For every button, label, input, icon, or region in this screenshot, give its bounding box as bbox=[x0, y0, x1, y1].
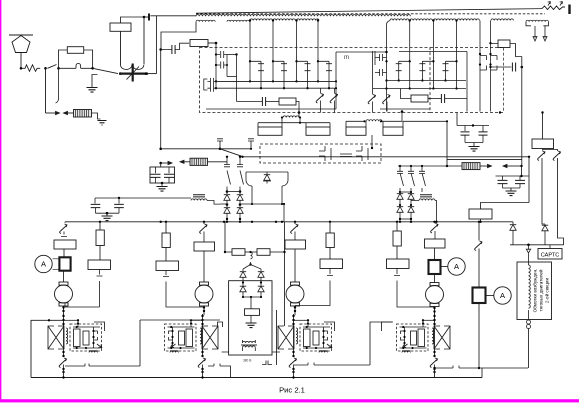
relay B1 box bbox=[346, 127, 366, 135]
VIP2 control column bbox=[387, 21, 391, 26]
right cap 2 bbox=[519, 176, 521, 180]
bridge B contact 2 bbox=[411, 166, 415, 192]
VIP2 output slashes bbox=[368, 95, 375, 105]
aux resistor Ra2 bbox=[245, 251, 257, 253]
node rectifier rail top bbox=[215, 42, 218, 45]
mid bus from sense vertical bbox=[159, 148, 162, 151]
inner tap nodes bbox=[402, 326, 404, 328]
resistor R4 box bbox=[190, 40, 208, 47]
svg-text:САРТС: САРТС bbox=[541, 253, 560, 259]
node VIP2 bottom bbox=[401, 110, 404, 113]
motor block X cross bbox=[48, 326, 64, 349]
motor block inner dashed box bbox=[70, 324, 102, 351]
hatched inductor mid-left bbox=[180, 160, 184, 163]
branch1 parallel vertical resistor R12 bbox=[96, 230, 104, 246]
branch2 contact and elbow bbox=[163, 271, 204, 308]
link bridge A to center legs bbox=[240, 203, 284, 205]
relay coil KV1 box bbox=[67, 47, 83, 54]
right branch drop bbox=[478, 222, 480, 241]
aux ground bbox=[250, 315, 252, 323]
rectifier VIP1 dashed enclosure bbox=[200, 48, 431, 113]
VIP1 left bracket bbox=[204, 79, 208, 90]
block3 bottom contact segment bbox=[294, 364, 371, 366]
field slash 1 bbox=[538, 151, 545, 161]
bridge A contact 1 bbox=[227, 157, 231, 192]
KM contact bar bbox=[340, 154, 352, 157]
right aux column 1 bbox=[479, 21, 481, 112]
arrow pair to node bbox=[503, 164, 507, 167]
branch1 motor output nodes bbox=[63, 306, 65, 315]
roof contact arrow 1 bbox=[548, 2, 551, 6]
inner box feed from top bus bbox=[422, 320, 424, 327]
aux bus bottom node bbox=[499, 111, 501, 113]
bridge A contact 2 bbox=[240, 157, 244, 192]
surge arrester FV1 horizontal bar bbox=[119, 72, 148, 74]
sense vertical to bus bbox=[160, 182, 162, 184]
VIP1 thyristor arm 4 bbox=[317, 21, 319, 82]
block bottom slash bbox=[198, 358, 205, 368]
relay A1 box bbox=[258, 127, 282, 135]
branch3 parallel chain bbox=[329, 222, 331, 233]
aux bridge diode 2 bbox=[260, 269, 262, 271]
wire RC filter up bbox=[456, 113, 458, 126]
right series box (shunt) bbox=[473, 288, 486, 304]
wire arrester to primary return bbox=[147, 73, 157, 75]
winding 1 left end drop bbox=[161, 22, 196, 50]
branch2 motor output bbox=[203, 306, 205, 315]
center thyristor diode bbox=[264, 175, 270, 181]
hatched resistor R2 bbox=[74, 110, 92, 118]
inner resistor 2 bbox=[179, 331, 185, 345]
center thyristor right leg bbox=[282, 172, 288, 186]
branch3 contact and elbow bbox=[295, 269, 333, 306]
inner resistor 2 bbox=[83, 331, 89, 345]
VIP2 snubber cap C4 bbox=[428, 98, 441, 100]
inner arrow contact bbox=[171, 344, 176, 348]
bridge B contact 1 bbox=[400, 166, 404, 192]
VIP1 lower contact pair row3 bbox=[207, 78, 216, 85]
branch2 vertical resistor R22 bbox=[162, 233, 170, 248]
inner box feed from top bus bbox=[307, 320, 309, 327]
branch2 slash bbox=[200, 224, 207, 234]
node and arrow to field box bbox=[526, 245, 530, 253]
field supply box R52 bbox=[532, 139, 554, 149]
riser to block4 top bbox=[370, 322, 393, 365]
block1 top bracket bbox=[94, 322, 105, 331]
right caps top bar bbox=[496, 166, 529, 176]
bridge B diode 12 bbox=[408, 194, 414, 200]
bridge A diode 21 bbox=[226, 205, 228, 208]
inner contact column bbox=[172, 327, 174, 348]
node on VIP1 bottom dashed edge bbox=[298, 111, 301, 114]
wire pantograph to node bbox=[20, 53, 22, 69]
block mini transformer bbox=[89, 351, 97, 352]
contact dashed box KM group bbox=[260, 144, 381, 163]
KM contact 2 bbox=[356, 146, 368, 161]
branch4 series box (shunt) bbox=[429, 260, 441, 274]
node cap chain bbox=[159, 48, 162, 51]
inner tap nodes bbox=[76, 326, 78, 328]
roof feed zigzag at far right bbox=[542, 6, 565, 10]
top bus over block bbox=[191, 319, 203, 321]
VIP1 inner column x227 bbox=[226, 55, 228, 77]
branch1 contact below R13 bbox=[65, 270, 103, 308]
switch QS1 blade bbox=[48, 65, 57, 69]
arrow from hatched resistor bbox=[64, 111, 68, 114]
branch4 slash bbox=[431, 224, 438, 234]
bridge A diode 12 bbox=[239, 192, 241, 195]
surge arrester FV1 slash bbox=[127, 67, 140, 80]
right branch wire to series box bbox=[478, 249, 480, 288]
motor block series coil bbox=[296, 328, 298, 344]
RC filter cap Cb bbox=[479, 132, 488, 135]
VIP2 thyristor arm 2 bbox=[432, 21, 434, 89]
inner arrow contact bbox=[403, 344, 408, 348]
open contact hook below node bbox=[56, 68, 59, 103]
center legs down bbox=[252, 186, 282, 204]
pantograph XA1 bbox=[12, 36, 30, 53]
bank cap 2 bbox=[118, 198, 120, 204]
RC filter ground bbox=[469, 147, 480, 152]
branch3 resistor R33 bbox=[320, 259, 343, 269]
secondary winding row left (with taps) bbox=[196, 20, 215, 22]
wire from relay B row bbox=[403, 120, 447, 122]
cap stub on mid bus 1 bbox=[217, 139, 223, 149]
block bottom slash bbox=[430, 358, 437, 368]
aux capacitor C5 bbox=[491, 66, 512, 68]
reactor wire to relay pair A bbox=[282, 118, 283, 123]
rectifier VIP2 dashed enclosure extension bbox=[430, 47, 504, 49]
svg-text:A: A bbox=[454, 262, 459, 271]
node mid bus bbox=[219, 148, 222, 151]
aux left drop bbox=[224, 222, 226, 252]
right caps ground bbox=[506, 191, 517, 196]
capacitor C2 bbox=[172, 45, 175, 54]
VIP2 thyristor arm 1 bbox=[409, 21, 411, 89]
right branch below box bbox=[478, 303, 480, 368]
wire KV1 to contact bbox=[84, 50, 93, 68]
mid vertical riser bbox=[139, 320, 141, 366]
VIP2 left ladder bbox=[372, 51, 374, 93]
VIP2 dc bus lower bbox=[373, 88, 466, 90]
branch1 bus corner bbox=[64, 222, 66, 223]
branch2 resistor R21 bbox=[194, 242, 215, 251]
branch4 parallel chain bbox=[396, 222, 398, 231]
field bus y245 bbox=[510, 244, 564, 246]
RC snubber box bbox=[150, 167, 175, 183]
left outline wire bbox=[31, 320, 64, 377]
bank cap 1 bbox=[94, 198, 96, 204]
node at pantograph base bbox=[20, 67, 23, 70]
inductor L1 (zigzag) bbox=[21, 65, 40, 72]
svg-text:Обмотки возбужден.: Обмотки возбужден. bbox=[533, 269, 538, 313]
wire R3 top to capacitor bar bbox=[121, 17, 145, 23]
motor block X-contactor frame bbox=[434, 326, 440, 349]
motor block X-contactor frame bbox=[278, 326, 284, 349]
branch2 resistor R23 bbox=[156, 261, 179, 271]
wire node down from reactor bbox=[299, 118, 301, 123]
snubber cap 1 bbox=[155, 167, 157, 173]
aux bridge top wires bbox=[243, 265, 261, 270]
node on mid bus in box bbox=[371, 147, 373, 149]
magenta page border left bbox=[0, 0, 1, 401]
relay pair B top wire bbox=[346, 120, 365, 122]
branch3 resistor R31 bbox=[294, 232, 296, 241]
VIP1 gate contact pair row2 bbox=[216, 62, 227, 69]
block column wires and nodes bbox=[63, 314, 65, 356]
right aux column 2 bbox=[490, 21, 492, 112]
block bottom slash bbox=[289, 358, 296, 368]
inner contact column bbox=[93, 327, 95, 348]
block2 bottom contact segment bbox=[208, 366, 231, 378]
inner arrow contact bbox=[327, 344, 332, 348]
VIP1 snubber feed column bbox=[235, 53, 237, 55]
snubber bottom node bbox=[161, 182, 164, 185]
branch3 motor output bbox=[294, 306, 296, 315]
block column wires and nodes bbox=[434, 314, 436, 356]
bridge B diode 22 bbox=[408, 207, 414, 213]
motor block series coil bbox=[200, 328, 202, 344]
auxiliary stub to ground bbox=[92, 75, 98, 88]
right web vertical x529 bbox=[528, 157, 530, 203]
main switch QF1 blade bbox=[93, 68, 118, 73]
node at arrester bus right bbox=[145, 72, 148, 75]
branch4 motor output bbox=[434, 307, 436, 316]
aux transformer core bbox=[241, 344, 257, 346]
right cap 1 bbox=[502, 176, 504, 180]
RC filter cap Ca bbox=[464, 126, 466, 132]
wire R2 to ground bbox=[92, 113, 101, 119]
roof contact arrow 2 bbox=[560, 2, 563, 6]
primary return vertical bbox=[156, 16, 158, 74]
aux enclosure box bbox=[229, 281, 272, 355]
mid bus second segment bbox=[243, 156, 382, 158]
knife switch on mid bus bbox=[220, 149, 242, 156]
motor block inner dashed box bbox=[165, 324, 197, 351]
R51 wires bbox=[481, 203, 530, 222]
block4 top bracket bbox=[382, 322, 393, 331]
branch2 wire to motor bbox=[203, 251, 205, 282]
bridge A diode 11 bbox=[226, 192, 228, 195]
RC filter bottom bbox=[465, 143, 483, 147]
svg-text:m: m bbox=[344, 55, 349, 61]
branch3 motor M3 bbox=[286, 285, 304, 303]
branch1 series box (shunt) bbox=[59, 257, 70, 270]
hatched feed inductor LF bbox=[462, 163, 480, 170]
branch2 motor M2 bbox=[195, 285, 213, 303]
capacitor bank top wire bbox=[95, 197, 190, 199]
field wire 2 down bbox=[558, 158, 564, 245]
branch2 parallel chain bbox=[165, 222, 167, 233]
ground for QF1 stub bbox=[87, 88, 98, 93]
node at cap bar bbox=[143, 16, 146, 19]
node before main switch QF1 bbox=[91, 67, 94, 70]
arrow into RC snubber bbox=[161, 162, 168, 164]
KM contact 1 bbox=[319, 146, 331, 161]
bridge B nodes bbox=[399, 191, 401, 193]
inner arrow contact bbox=[97, 344, 102, 348]
aux bridge nodes bbox=[242, 281, 244, 283]
VIP1 thyristor arm 1 bbox=[249, 21, 251, 82]
wire C1 to transformer primary bbox=[144, 16, 148, 18]
ammeter PA3 bbox=[494, 287, 511, 304]
main return bus bbox=[31, 377, 482, 379]
filter reactor coil bbox=[191, 199, 207, 201]
relay A2 box bbox=[306, 127, 330, 135]
SARTS box bbox=[538, 249, 562, 260]
wire C2 to R4 bbox=[161, 43, 189, 49]
inner resistor 2 bbox=[411, 331, 417, 345]
VIP1 right edge wire bbox=[335, 52, 337, 109]
aux bridge diode 4 bbox=[260, 284, 262, 286]
block column wires and nodes bbox=[202, 314, 204, 356]
surge arrester FV1 vertical bar bbox=[132, 64, 134, 82]
svg-text:2-ой секции: 2-ой секции bbox=[544, 278, 550, 304]
svg-text:380 B: 380 B bbox=[243, 359, 251, 363]
field slash 2 bbox=[553, 151, 560, 161]
wire node up to relay KV1 coil bbox=[59, 50, 68, 68]
motor block X cross bbox=[434, 326, 450, 349]
motor block inner dashed box bbox=[397, 324, 429, 351]
bridge B reactor wire bbox=[416, 201, 437, 223]
inner resistor 1 bbox=[418, 329, 425, 347]
bank bottom wire bbox=[96, 212, 120, 214]
center thyristor top bar bbox=[246, 171, 288, 173]
motor block X cross bbox=[278, 326, 294, 349]
inner tap nodes bbox=[170, 326, 172, 328]
aux bridge diode 1 bbox=[242, 269, 244, 271]
aux resistor R7 box bbox=[498, 40, 510, 48]
node on sense vertical bbox=[159, 162, 162, 165]
inner resistor 2 bbox=[313, 331, 319, 345]
branch1 R12 to R13 bbox=[99, 246, 101, 261]
main dc bus bbox=[65, 221, 513, 223]
branch1 resistor R11 bbox=[54, 240, 76, 249]
node at arrester bus left bbox=[119, 72, 122, 75]
auxiliary winding right (heater) bbox=[526, 20, 548, 22]
arrow right of LF bbox=[480, 165, 488, 167]
field return wire bbox=[528, 329, 530, 369]
roof insulator bar bbox=[568, 5, 570, 15]
bridge B diode 21 bbox=[397, 207, 403, 213]
branch4 contact and elbow bbox=[394, 269, 435, 308]
catenary feed line (slanted) bbox=[196, 9, 542, 14]
node after QS1 bbox=[57, 67, 60, 70]
VIP2 snubber resistor R6 bbox=[411, 95, 428, 102]
transformer feed resistor R3 box bbox=[110, 23, 131, 31]
magenta page border bottom bbox=[0, 399, 579, 402]
relay pair A top wire bbox=[258, 122, 330, 124]
vertical from coil wire bbox=[446, 122, 448, 167]
ground after R2 bbox=[98, 121, 107, 126]
aux load resistor Rb bbox=[245, 309, 260, 316]
svg-text:тяговых двигателей: тяговых двигателей bbox=[538, 269, 544, 311]
wire down from node to hatched resistor branch bbox=[45, 68, 47, 113]
block3 left frame line bbox=[276, 310, 278, 365]
VIP2 right rail bbox=[466, 52, 468, 112]
right branch slash bbox=[475, 241, 482, 251]
block mini transformer bbox=[170, 351, 178, 352]
reactor coil LA bbox=[283, 116, 299, 118]
right web lower bus bbox=[398, 165, 462, 167]
inner box feed from top bus bbox=[77, 320, 79, 327]
VIP1 snubber resistor R5 bbox=[266, 101, 279, 103]
inner box feed from top bus bbox=[190, 320, 192, 327]
svg-text:Рис 2.1: Рис 2.1 bbox=[279, 386, 305, 395]
aux transformer coil bottom bbox=[243, 346, 256, 348]
center thyristor left leg bbox=[246, 172, 252, 186]
filter reactor core bbox=[193, 195, 205, 197]
wire R3 bottom to arrester bbox=[120, 31, 122, 65]
bridge B contact 3 bbox=[422, 166, 426, 192]
right rail down from C5 bbox=[521, 57, 523, 167]
inner contact column bbox=[323, 327, 325, 348]
VIP2 thyristor arm 3 bbox=[456, 21, 458, 89]
branch1 wire to R box bbox=[61, 232, 67, 237]
pantograph XA1 roof line bbox=[9, 34, 33, 36]
aux resistor Ra1 bbox=[225, 251, 232, 253]
R52 top wire bbox=[542, 113, 544, 140]
aux bridge diode 3 bbox=[242, 284, 244, 286]
bridge A diode 22 bbox=[239, 205, 241, 208]
motor block X-contactor frame bbox=[202, 326, 208, 349]
branch3 wire to motor bbox=[294, 249, 296, 282]
top bus over block bbox=[294, 319, 309, 321]
inner resistor 1 bbox=[304, 329, 311, 347]
bridge A nodes bbox=[226, 190, 229, 193]
field winding box bbox=[517, 262, 552, 320]
reactor coil LB bbox=[366, 120, 382, 122]
motor block series coil bbox=[432, 328, 434, 344]
mid top bus bbox=[140, 319, 220, 321]
wire rect A output down bbox=[298, 113, 300, 118]
VIP1 control column bbox=[215, 43, 217, 88]
branch1 wire to motor frame bbox=[63, 249, 65, 257]
aux transformer coil top bbox=[243, 341, 256, 343]
VIP1 thyristor arm 2 bbox=[272, 21, 274, 82]
transformer T1 core dashed line bbox=[196, 13, 545, 15]
branch1 motor M1 bbox=[63, 271, 65, 282]
VIP2 snubber feed bbox=[401, 89, 412, 99]
VIP1 snubber chain: cap C3 bbox=[237, 101, 263, 103]
VIP1 thyristor arm 3 bbox=[296, 21, 298, 82]
branch4 vertical resistor R42 bbox=[393, 231, 401, 246]
relay B2 box bbox=[383, 127, 403, 135]
VIP1 output slashes bbox=[316, 94, 323, 104]
return bus riser right bbox=[481, 368, 483, 378]
branch1 slash bbox=[60, 224, 67, 234]
inner contact column bbox=[404, 327, 406, 348]
aux box side stubs bbox=[222, 351, 280, 353]
small bracket symbol bbox=[262, 361, 272, 365]
VIP1 dc bus upper bbox=[216, 80, 336, 82]
motor block inner dashed box bbox=[300, 324, 332, 351]
field diode VD52 bbox=[544, 223, 546, 226]
ammeter PA1 bbox=[35, 255, 52, 272]
VIP2 dc bus upper bbox=[387, 80, 467, 82]
block2 top bracket bbox=[218, 322, 223, 327]
branch2 R22 to R23 bbox=[165, 248, 167, 262]
aux dashed rail bbox=[503, 48, 505, 113]
long sense vertical to mid bus bbox=[160, 50, 162, 149]
VIP1 lower contact pair row4 bbox=[207, 85, 216, 92]
coupling capacitor bar C1 bbox=[148, 14, 150, 21]
secondary winding row right bbox=[390, 19, 409, 21]
field wire 1 down bbox=[542, 158, 545, 224]
wire reactor to bridge A bbox=[190, 198, 220, 204]
VIP1 inner bottom line bbox=[206, 108, 336, 110]
mid bus to right bbox=[381, 156, 529, 158]
